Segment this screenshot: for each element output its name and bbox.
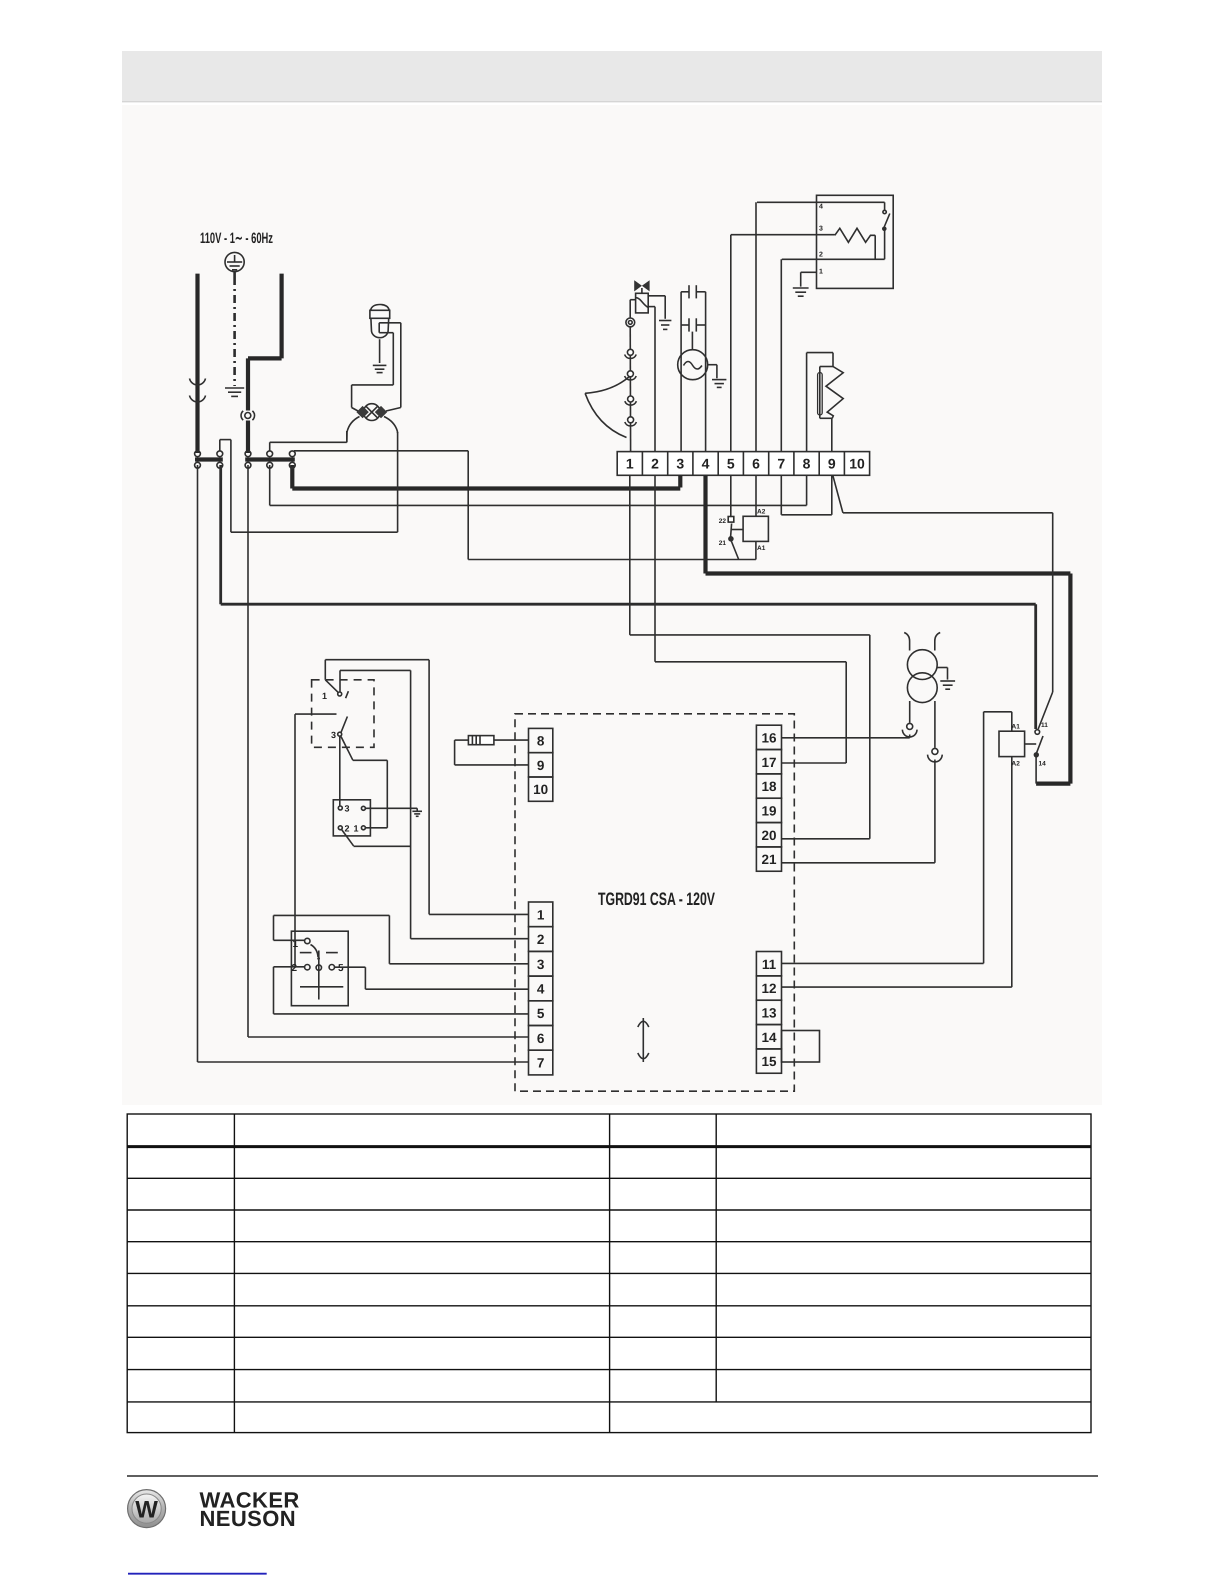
wire: S1 blade3 to S2 contact1 xyxy=(341,737,387,828)
wire: S1 contact1 to terminal 2 xyxy=(340,670,529,938)
wire: contact 14 drop xyxy=(1035,757,1037,784)
wire: K1 coil left link xyxy=(731,529,743,531)
jumper box at 14/15 xyxy=(782,1031,820,1063)
junction bus bars X0 xyxy=(195,457,223,461)
svg-text:A1: A1 xyxy=(1012,724,1021,731)
wire: blade row to col5 link xyxy=(468,559,756,561)
terminal strip X1 xyxy=(617,452,869,476)
wire: terminal 21 link xyxy=(782,862,935,864)
svg-text:2: 2 xyxy=(819,252,823,259)
svg-text:1: 1 xyxy=(537,907,545,922)
svg-text:3: 3 xyxy=(345,804,350,814)
svg-text:10: 10 xyxy=(849,456,865,472)
Wacker Neuson wordmark xyxy=(200,1488,300,1532)
svg-text:6: 6 xyxy=(537,1031,545,1046)
wire: rail to strip 4 xyxy=(705,292,707,452)
earth electrode symbol xyxy=(225,252,244,271)
svg-text:21: 21 xyxy=(719,540,727,547)
svg-text:3: 3 xyxy=(331,730,336,740)
wire: col4 down long link xyxy=(270,465,807,505)
contact K2 11/14 xyxy=(1034,730,1043,757)
wire: fuse loop to terminal 9 xyxy=(455,740,529,765)
wire: P1 pin4 to strip 6 xyxy=(756,202,885,451)
svg-text:2: 2 xyxy=(292,963,298,974)
wire: terminal 11 to K2 A1 xyxy=(782,712,1012,964)
wire: motor to ground xyxy=(708,365,717,379)
level swoosh xyxy=(585,377,629,438)
wire: P1 pin3 to strip 5 xyxy=(731,235,835,452)
capacitor C2 xyxy=(681,318,706,331)
TGRD91 controller box xyxy=(515,714,794,1091)
wire: terminal 12 to K2 A2 xyxy=(782,757,1012,988)
svg-text:5: 5 xyxy=(727,456,735,472)
wire: S2 to ground xyxy=(365,808,417,811)
svg-text:14: 14 xyxy=(761,1030,777,1045)
svg-text:11: 11 xyxy=(1041,722,1048,729)
svg-text:A1: A1 xyxy=(757,545,766,552)
selector cross lines S3 xyxy=(300,945,344,1000)
pin labels P1 xyxy=(819,204,823,276)
svg-text:11: 11 xyxy=(762,957,777,972)
wire: fuse to terminal 8 xyxy=(494,739,529,741)
wire: col2 down main feed xyxy=(221,465,1036,729)
wire: T1 right lead xyxy=(934,701,936,748)
ground at motor xyxy=(712,380,726,388)
ground at T1 xyxy=(940,681,955,689)
fuse F1 at terminal 8 xyxy=(468,736,494,745)
svg-text:20: 20 xyxy=(761,828,776,843)
header band xyxy=(122,51,1102,102)
wire: strip3 thick drop xyxy=(678,475,682,487)
footer rule xyxy=(127,1475,1098,1477)
svg-text:8: 8 xyxy=(803,456,811,472)
svg-text:10: 10 xyxy=(533,782,548,797)
svg-text:13: 13 xyxy=(761,1006,777,1021)
ground PE xyxy=(225,388,244,396)
wire: strip9 diagonal to right side xyxy=(833,475,1053,729)
svg-text:1: 1 xyxy=(353,823,358,833)
selector S3 box xyxy=(291,931,348,1006)
wire: K1 A1 drop xyxy=(755,541,757,559)
svg-text:16: 16 xyxy=(761,731,777,746)
wire: col2 feed jog xyxy=(220,440,398,533)
svg-text:7: 7 xyxy=(777,456,785,472)
wire: col4 upper link to lamp xyxy=(270,431,347,451)
svg-text:4: 4 xyxy=(537,982,545,997)
svg-text:2: 2 xyxy=(345,823,350,833)
wire: PE dash-dot drop xyxy=(233,272,236,386)
svg-text:A2: A2 xyxy=(757,509,766,516)
svg-text:12: 12 xyxy=(761,981,776,996)
wire: terminal 20 link xyxy=(782,838,870,840)
svg-text:19: 19 xyxy=(761,804,776,819)
wire: S3 contact 5 to terminal 4 xyxy=(335,967,529,989)
heater R1 xyxy=(807,353,844,452)
svg-text:1: 1 xyxy=(819,269,823,276)
contact 1 of S1 xyxy=(325,680,348,698)
wire: resistor right drop xyxy=(874,235,876,259)
wire: strip6 down to relay coil A2 xyxy=(755,475,757,516)
sensor bulb B1 xyxy=(370,305,390,364)
svg-text:W: W xyxy=(135,1497,158,1524)
wire: L1 conductor xyxy=(195,274,199,453)
lamp H1 xyxy=(356,404,387,421)
contact 3 of S1 xyxy=(295,714,347,736)
wire: T1 left lead xyxy=(909,701,911,723)
wire: P1 internal bottom xyxy=(782,258,885,260)
wire: S2 feed drop xyxy=(294,714,296,966)
svg-text:14: 14 xyxy=(1039,761,1047,768)
float switch chain S0 xyxy=(625,318,637,452)
TGRD terminals 1-7 xyxy=(529,902,553,1075)
wire: terminal 17 link xyxy=(782,762,847,764)
svg-text:NEUSON: NEUSON xyxy=(200,1506,297,1531)
wire: lamp left leg xyxy=(347,417,360,443)
wire: strip1 down to terminal 20 xyxy=(630,475,870,839)
wire: col1 down to terminal 7 xyxy=(198,465,529,1062)
resistor inside P1 xyxy=(835,228,875,242)
wire: S3 contact 2 to terminal 5 xyxy=(274,967,529,1014)
wire: strip5 down to relay contact 22 xyxy=(730,475,732,516)
wire: rail to strip 3 xyxy=(680,292,682,452)
svg-text:17: 17 xyxy=(761,755,776,770)
AC motor M1 xyxy=(678,350,708,380)
wire: col5 upper link xyxy=(294,451,468,560)
wire: S2 blade2 xyxy=(342,829,411,846)
wire: T1 to ground xyxy=(937,668,948,680)
svg-text:15: 15 xyxy=(761,1054,777,1069)
wire: P1 pin2 to strip 7 xyxy=(780,259,782,451)
wire: valve to float chain xyxy=(630,300,635,319)
wire: S1 contact3 drop to S2 xyxy=(339,736,341,806)
TGRD terminals 8-10 xyxy=(529,728,553,801)
connector at T1 right xyxy=(928,748,943,862)
wire: col5 thick link to strip 3 xyxy=(292,465,680,489)
wire: P1 pin1 to ground xyxy=(801,272,817,286)
svg-text:3: 3 xyxy=(819,226,823,233)
wire: motor top stub xyxy=(691,332,693,350)
wire: terminal 3 loop to S3 contact 1 xyxy=(274,915,529,963)
contacts of S2 xyxy=(338,806,365,830)
capacitor C1 xyxy=(681,285,706,298)
svg-text:110V - 1∼ - 60Hz: 110V - 1∼ - 60Hz xyxy=(200,230,273,247)
svg-text:4: 4 xyxy=(702,456,710,472)
connector on N conductor xyxy=(241,411,254,420)
wire: strip8 down-left long xyxy=(806,475,808,505)
svg-text:9: 9 xyxy=(537,758,545,773)
junction terminals xyxy=(195,451,296,468)
switch in P1 xyxy=(883,202,890,259)
svg-text:3: 3 xyxy=(676,456,684,472)
svg-text:21: 21 xyxy=(761,852,777,867)
svg-text:2: 2 xyxy=(537,932,545,947)
contacts of S3 xyxy=(305,938,335,970)
wire: strip7-strip9 U link xyxy=(781,475,832,515)
svg-text:9: 9 xyxy=(828,456,836,472)
svg-text:18: 18 xyxy=(761,779,777,794)
footer blue link line xyxy=(128,1573,267,1575)
svg-text:TGRD91 CSA - 120V: TGRD91 CSA - 120V xyxy=(598,889,715,909)
wire: strip2 down to terminal 17 xyxy=(655,475,846,763)
wire: S1 feed from terminal 1 xyxy=(325,660,528,915)
switch S2 box xyxy=(333,800,370,836)
wire: B1 lower lead to lamp left xyxy=(352,323,394,411)
wire: N conductor with step xyxy=(248,274,282,453)
svg-text:5: 5 xyxy=(537,1006,545,1021)
ground at P1 xyxy=(793,288,809,296)
wire: col3 down to terminal 6 xyxy=(248,465,529,1037)
door switch S1 box xyxy=(312,680,374,748)
svg-text:3: 3 xyxy=(537,957,545,972)
relay K1 contact 22/21 xyxy=(728,517,739,560)
svg-text:6: 6 xyxy=(752,456,760,472)
svg-text:7: 7 xyxy=(537,1056,545,1071)
wire: valve upper right to ground xyxy=(648,296,665,319)
connector at T1 left xyxy=(902,723,917,737)
relay K1 coil xyxy=(743,516,768,541)
svg-text:8: 8 xyxy=(537,734,545,749)
wire: K2 coil to blade xyxy=(1025,743,1037,745)
TGRD terminals 11-15 xyxy=(756,952,781,1074)
ground of B1 xyxy=(373,365,387,372)
svg-text:5: 5 xyxy=(338,963,344,974)
svg-text:22: 22 xyxy=(719,518,727,525)
TGRD terminals 16-21 xyxy=(756,725,781,871)
transformer T1 xyxy=(904,633,940,703)
svg-text:A2: A2 xyxy=(1012,761,1021,768)
wire: terminal 16 link xyxy=(782,737,910,739)
svg-text:1: 1 xyxy=(322,691,327,701)
level symbol inside TGRD xyxy=(638,1018,649,1062)
wire: strip4 thick path to contact 14 xyxy=(706,475,1071,783)
wire: B1 right lead to lamp right xyxy=(379,323,401,411)
wire: valve lower right to strip 2 xyxy=(648,307,655,452)
ground at S2 xyxy=(412,811,422,816)
svg-text:1: 1 xyxy=(626,456,634,472)
legend table xyxy=(127,1114,1091,1433)
solenoid valve Y1 xyxy=(634,280,649,313)
hour counter P1 box xyxy=(817,195,894,288)
relay K2 coil xyxy=(999,731,1025,756)
svg-text:4: 4 xyxy=(819,204,823,211)
Wacker Neuson logo emblem xyxy=(128,1490,166,1528)
strain hooks on L1 xyxy=(190,379,206,402)
svg-text:2: 2 xyxy=(651,456,659,472)
ground at valve xyxy=(659,321,671,330)
wire: lamp right leg xyxy=(384,417,398,533)
